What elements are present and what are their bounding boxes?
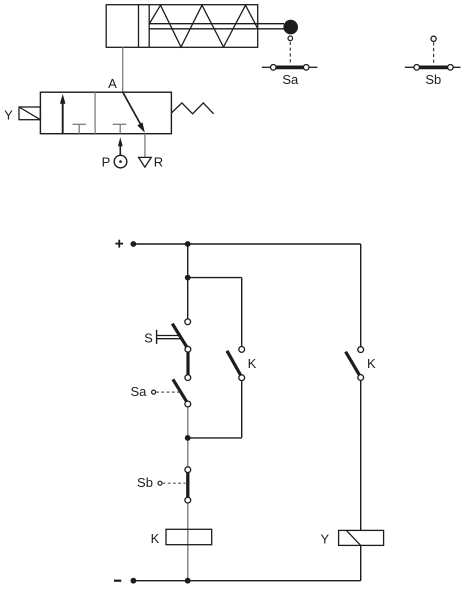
svg-text:Y: Y xyxy=(320,531,329,546)
svg-text:A: A xyxy=(108,76,117,91)
svg-text:R: R xyxy=(154,154,163,169)
svg-text:Sb: Sb xyxy=(137,475,153,490)
svg-text:Sb: Sb xyxy=(425,72,441,87)
svg-text:Y: Y xyxy=(4,108,13,123)
svg-text:Sa: Sa xyxy=(282,72,299,87)
svg-text:P: P xyxy=(102,154,111,169)
svg-text:Sa: Sa xyxy=(130,384,147,399)
svg-text:K: K xyxy=(248,356,257,371)
svg-text:K: K xyxy=(367,356,376,371)
svg-text:K: K xyxy=(151,531,160,546)
svg-text:S: S xyxy=(144,330,153,345)
